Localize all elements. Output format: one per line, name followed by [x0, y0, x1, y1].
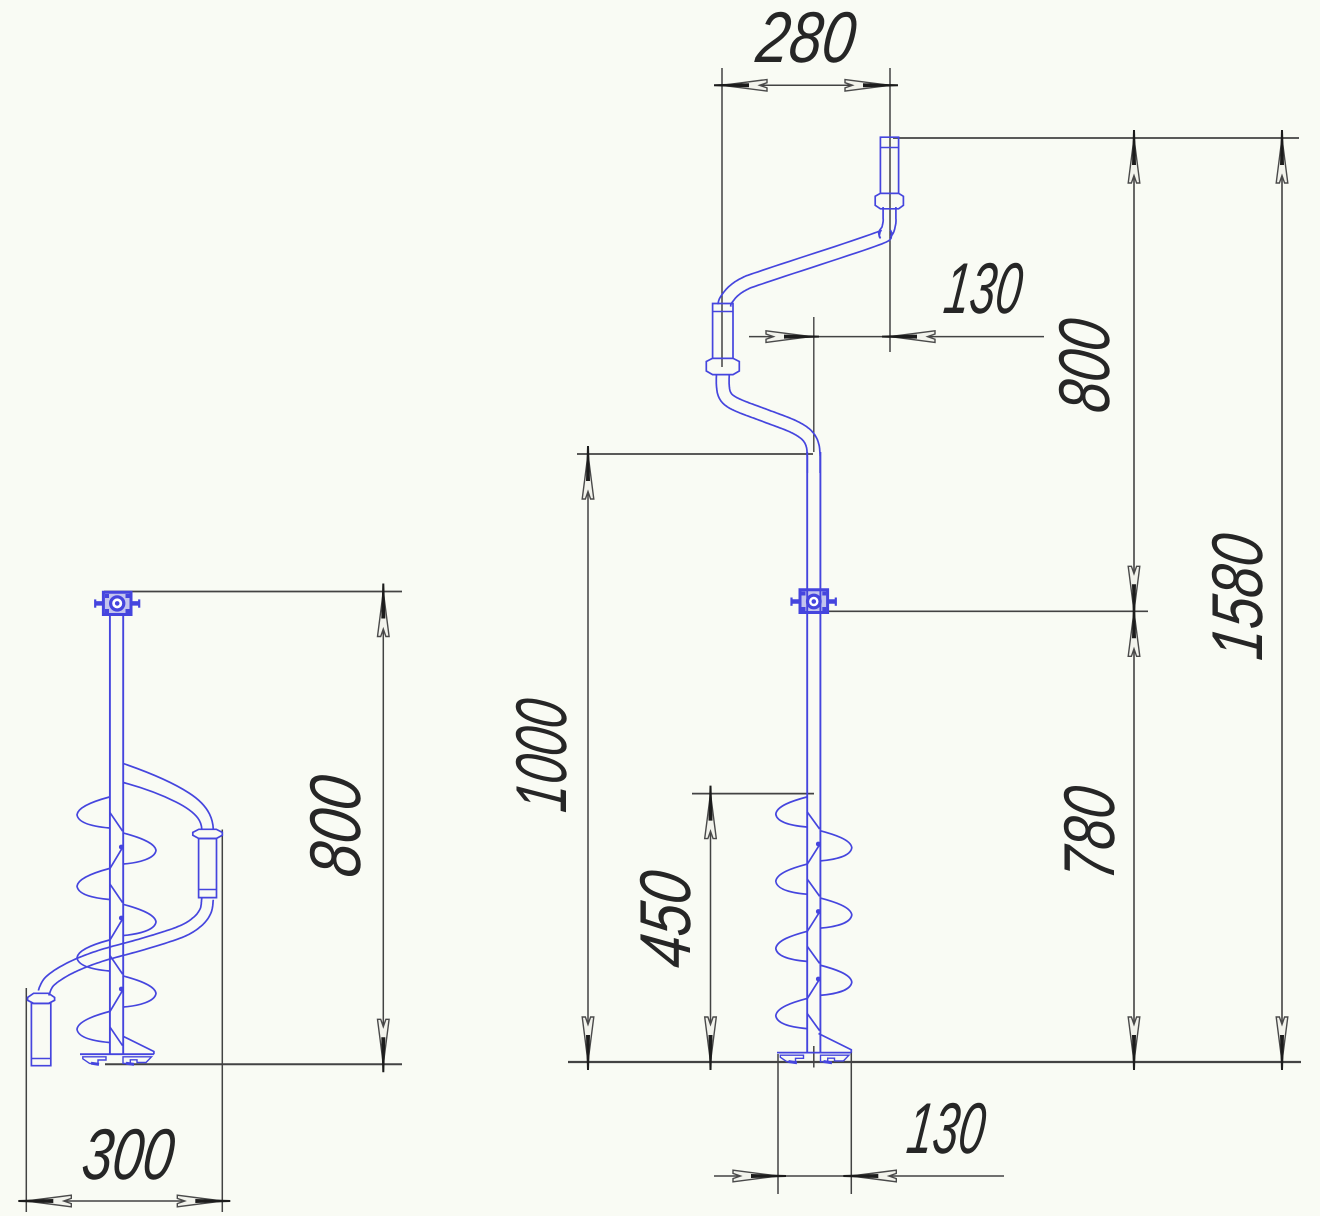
svg-text:280: 280 [752, 0, 861, 78]
arrow 130 bottom left [733, 1170, 786, 1182]
dim 450 reference line y=793.6 [692, 793, 814, 795]
svg-text:1000: 1000 [502, 695, 582, 816]
arrow 300 right [177, 1195, 230, 1207]
shaft dashed centerline right view [816, 842, 821, 847]
folded handle right grip [193, 829, 223, 838]
ground reference line right view [568, 1061, 1301, 1063]
svg-text:450: 450 [626, 867, 706, 972]
ext line bottom-130 right x=851.3 [850, 1052, 852, 1194]
crank upper arm tube [718, 207, 883, 304]
arrow 800 top [1128, 130, 1140, 183]
auger shaft right view [806, 452, 808, 1053]
shaft lock clamp right view [800, 590, 828, 613]
left view ground line y=1064.3 [105, 1063, 402, 1065]
center mark line x=813.8 for dim 130 [813, 317, 815, 452]
crank middle grip [713, 304, 733, 359]
auger flight helix right view [776, 797, 852, 1031]
arrow 780 top [1128, 603, 1140, 656]
arrow 1000 top [582, 446, 594, 499]
auger bottom blade left view [80, 1053, 154, 1055]
arrow 450 top [705, 786, 717, 839]
svg-text:780: 780 [1050, 782, 1130, 884]
arrow 130 top right [882, 331, 935, 343]
dim line 1000 at x=588 [587, 454, 589, 1062]
ext line 300 right x=222.3 [221, 830, 223, 1213]
arrow 1580 top [1276, 130, 1288, 183]
dim line 280 y=85.3 [722, 84, 890, 86]
folded handle upper tube [123, 764, 213, 830]
dim line 300 y=1201 [26, 1200, 222, 1202]
folded handle left grip [28, 993, 55, 1003]
ext line bottom-130 left x=778 [777, 1054, 779, 1194]
crank lower arm tube [716, 375, 807, 473]
arrow 1000 bottom [582, 1017, 594, 1070]
arrow 280 right [845, 80, 898, 92]
svg-text:130: 130 [903, 1089, 990, 1169]
ext line 280/130 right x=890 [889, 68, 891, 352]
dim line 1580 at x=1282 [1281, 138, 1283, 1062]
dim line 800/780 at x=1134 [1133, 138, 1135, 1062]
svg-text:130: 130 [940, 249, 1027, 329]
arrow left-800 top [378, 584, 390, 637]
arrow 300 left [18, 1195, 71, 1207]
dim 1000 reference line y=454 [577, 453, 813, 455]
svg-text:300: 300 [78, 1115, 179, 1195]
arrow 1580 bottom [1276, 1017, 1288, 1070]
svg-text:800: 800 [296, 771, 376, 881]
arrow 450 bottom [705, 1017, 717, 1070]
ext line 300 left x=26.3 [25, 988, 27, 1212]
arrow 780 bottom [1128, 1017, 1140, 1070]
shaft dashed centerline left view [119, 845, 124, 850]
crank top grip [880, 137, 898, 193]
arrow 280 left [714, 80, 767, 92]
folded handle lower tube [38, 898, 202, 990]
auger bottom blade right view [777, 1052, 851, 1054]
arrow 130 top left [766, 331, 819, 343]
arrow 130 bottom right [843, 1170, 896, 1182]
arrow 800 bottom [1128, 566, 1140, 619]
arrow left-800 bottom [378, 1019, 390, 1072]
shaft lock clamp left view [103, 592, 131, 614]
blade center tick right view [813, 1046, 815, 1068]
dim line 130 top y=336.6 [749, 336, 1044, 338]
svg-text:800: 800 [1045, 315, 1125, 417]
dim line 800 left view x=383.3 [382, 592, 384, 1065]
ext line 280 left x=722 [721, 68, 723, 367]
dim top reference line y=138 [893, 137, 1299, 139]
svg-text:1580: 1580 [1198, 530, 1278, 664]
left view top reference line y=591.5 [104, 591, 402, 593]
dim line 450 at x=710.5 [710, 794, 712, 1062]
auger flight helix left view [77, 797, 156, 1046]
dim clamp reference line y=611.3 [828, 610, 1148, 612]
auger shaft left view [109, 615, 111, 1056]
dim line 130 bottom y=1176 [714, 1175, 1004, 1177]
